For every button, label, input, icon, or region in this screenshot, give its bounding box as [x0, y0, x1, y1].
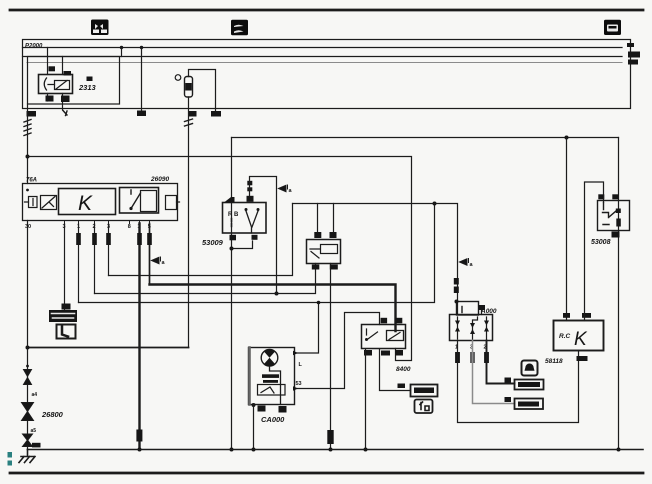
svg-text:8400: 8400: [396, 366, 411, 373]
CC top pin blobs: [381, 318, 388, 324]
svg-text:26800: 26800: [41, 410, 64, 419]
wire x27 inner box to relay box: [27, 104, 29, 184]
CA000 bottom pin blobs: [252, 403, 256, 407]
svg-text:K: K: [574, 329, 588, 350]
connector blob below box left: [27, 111, 37, 117]
53009 top pin blob x249: [247, 196, 254, 202]
CC bottom pin marks: [364, 350, 372, 356]
inline connector pair 2 x27: [22, 403, 34, 421]
CA000 inner switch rect: [258, 385, 286, 396]
pin mark 9: [505, 397, 512, 402]
pin blob above ignition right: [64, 71, 72, 76]
node dot x365 ground: [364, 448, 368, 452]
wire bus y156: [28, 157, 412, 361]
CA000 fan circle: [261, 350, 278, 367]
node dot x253 ground: [252, 448, 256, 452]
svg-text:53008: 53008: [591, 239, 611, 246]
svg-text:K: K: [78, 192, 93, 215]
svg-text:53009: 53009: [202, 238, 224, 247]
power rail 3: [23, 56, 623, 58]
wire x27 relay to ground: [27, 221, 29, 450]
wire x231 long vertical: [231, 138, 233, 450]
CC inner rect: [387, 331, 404, 341]
fuse dark element: [185, 83, 192, 91]
relay K body: [59, 189, 116, 215]
connector box 2000: [411, 385, 438, 397]
wire CA000 ground: [253, 405, 255, 450]
inline connector pair 3 x27: [23, 434, 33, 447]
pedal switch upper block: [49, 310, 77, 322]
relay pin numbers: [25, 224, 151, 230]
svg-text:R.C: R.C: [559, 333, 571, 340]
lamp unit CA000 box: [249, 348, 295, 405]
page arrow marker a1: [279, 185, 288, 192]
svg-text:R B: R B: [228, 212, 239, 218]
ignition switch 2313 body: [39, 75, 73, 94]
53008 bottom pin mark: [612, 232, 620, 238]
ignition switch contact diagonal: [48, 81, 67, 90]
relay left connector: [29, 197, 38, 208]
node dot y137 x566: [565, 136, 569, 140]
svg-text:8: 8: [128, 224, 131, 230]
wire branch pin1 53009: [232, 241, 253, 249]
svg-text:76A: 76A: [26, 178, 37, 184]
power rail 4 (grey): [27, 62, 622, 64]
svg-text:53: 53: [296, 381, 302, 387]
svg-text:P2000: P2000: [25, 44, 43, 50]
svg-text:a5: a5: [31, 428, 37, 434]
svg-text:58118: 58118: [545, 358, 563, 365]
53009 bottom pin blob 1: [252, 235, 258, 240]
svg-text:26090: 26090: [150, 176, 169, 183]
wire ignition pin to rail3: [62, 57, 64, 75]
relay box 26090 outline: [23, 184, 178, 221]
wire A000 pin2 to connector: [487, 341, 515, 384]
power rail 2: [23, 47, 623, 49]
node dot x318 y302: [317, 301, 321, 305]
node dot x27 y156: [26, 155, 30, 159]
wire bus y284 thick: [150, 285, 396, 332]
icon air-distribution top-middle: [231, 20, 248, 36]
pin mark 4B: [505, 378, 512, 383]
53009 top pin blob x231: [224, 197, 235, 203]
icon display top-right: [604, 20, 621, 35]
wire CC mid pin to connector: [380, 349, 411, 391]
connector hatch x188: [185, 119, 193, 126]
tick arrow below x62: [63, 111, 67, 116]
inline fuse x330: [327, 430, 333, 444]
ground rail: [28, 449, 644, 451]
pin blob below ignition left: [46, 96, 54, 102]
ignition bottom pin left stub: [47, 94, 49, 102]
switch unit 53009 box: [223, 203, 267, 234]
connector blob x141: [137, 111, 146, 117]
page arrow marker a3: [460, 259, 469, 266]
connector box 38400: [515, 399, 544, 410]
fuse pilot circle: [175, 75, 181, 81]
wire x141 down to connector: [141, 48, 143, 113]
wire relay pin x149: [149, 224, 151, 285]
svg-text:CA000: CA000: [261, 415, 285, 424]
53009 internal dashes: [231, 219, 233, 227]
wire bus y302: [79, 204, 435, 303]
connector blob x215: [211, 111, 221, 117]
resistor unit CC box: [362, 325, 406, 349]
relay coil 26090: [41, 196, 57, 210]
53009 wire code marks x249: [247, 181, 252, 186]
relay switch box: [120, 188, 159, 214]
frame bottom border: [10, 472, 643, 475]
fuse F body: [185, 77, 193, 98]
A000 small top box: [457, 302, 479, 316]
node dot x231 ground: [230, 448, 234, 452]
relay 1503 box: [307, 240, 341, 264]
relay right connector: [166, 196, 177, 210]
53008 top pin marks: [598, 194, 604, 199]
wire relay pin x78: [78, 224, 80, 303]
wire code blobs under relay: [76, 233, 152, 245]
pin blob below ignition right: [61, 96, 70, 103]
connector box 47000: [515, 380, 544, 390]
ignition switch arc: [44, 78, 46, 90]
pedal switch pin blob: [62, 304, 71, 310]
svg-text:a4: a4: [32, 392, 38, 398]
A000 internal contacts: [458, 317, 487, 339]
node dot x27 y347: [26, 346, 30, 350]
53009 contact Y: [246, 211, 258, 233]
wire fuse top bracket: [189, 70, 216, 109]
switch unit A000 box: [450, 315, 493, 341]
wire ignition pin to rail2: [47, 48, 49, 75]
wire bus y275: [109, 204, 293, 276]
node dot y203 x434: [433, 202, 437, 206]
node dot x231 y248: [230, 247, 234, 251]
CA000 capacitor bars: [262, 374, 279, 378]
node dot rail x141: [140, 46, 143, 49]
A000 stub pin 5: [481, 310, 483, 315]
connector blob x188: [189, 111, 197, 117]
inline fuse x139: [136, 430, 142, 442]
wire relay pin x108: [108, 224, 110, 276]
1503 internals: [310, 249, 320, 258]
wire x566 to K unit: [566, 138, 568, 321]
CA000 internal wires: [270, 366, 281, 405]
wire lamp 53 to CC unit top pin: [295, 313, 380, 389]
page arrow marker a2: [152, 257, 161, 264]
icon fan-switch top-left: [91, 20, 109, 36]
wire 53008 bracket to K unit: [585, 182, 604, 321]
wire code blobs under A000: [455, 352, 460, 363]
wire relay pin x94: [94, 224, 96, 294]
CA000 left edge thick: [248, 348, 251, 405]
wire bus y203: [293, 204, 458, 315]
rail end marks right: [627, 43, 640, 65]
wire bus y137: [232, 137, 619, 139]
svg-text:2313: 2313: [78, 83, 97, 92]
1503 wires to bus y203: [317, 204, 319, 233]
wire thick y347 to lamp unit: [28, 347, 189, 349]
unit box P2000 outline: [23, 40, 631, 109]
frame top border: [10, 9, 643, 12]
node dot rail x121: [120, 46, 123, 49]
A000 bottom pin numbers: [455, 345, 487, 351]
wire CC left pin to ground: [365, 349, 367, 450]
wire 53009 bracket to x276: [250, 177, 277, 294]
relay 53008 box: [598, 201, 630, 231]
1503 inner rect: [321, 245, 338, 254]
wire relay pin x64 to pedal switch: [64, 224, 66, 311]
53008 internals: [603, 203, 617, 225]
label glyph 2313: [87, 77, 93, 82]
K unit bottom pin mark: [577, 356, 588, 361]
wire x618 through relay 53008 to ground: [618, 138, 620, 450]
wire bus y293: [95, 264, 316, 294]
ignition switch inner rect: [55, 81, 70, 90]
wire A000 pin3 grey to connector: [473, 341, 515, 404]
teal marks: [8, 452, 13, 458]
CC left contact: [367, 329, 378, 340]
pedal switch lower block: [57, 325, 76, 339]
node dot x139 ground: [138, 448, 142, 452]
wire x121 rail to inner box: [121, 48, 123, 57]
53009 bottom pin blob 9: [230, 235, 237, 241]
1503 top pin blobs: [314, 232, 321, 238]
relay switch contact: [131, 190, 141, 209]
node dot x618 ground: [617, 448, 621, 452]
ground symbol: [19, 450, 35, 463]
wire 1503 to ground with fuse: [330, 264, 332, 450]
wire relay pin x139 thick to ground: [138, 224, 140, 450]
pin blob above ignition left: [49, 66, 56, 71]
node dot x330 ground: [329, 448, 333, 452]
tick below x215: [215, 109, 217, 113]
wire A000 pin1 to K unit: [458, 341, 579, 423]
connector icon 14: [415, 400, 433, 414]
K unit top pin marks: [563, 313, 570, 318]
inline connector pair 1 x27: [24, 370, 32, 385]
wire code blobs x457: [454, 278, 459, 285]
K unit RC box: [554, 321, 604, 351]
chime icon: [522, 361, 538, 376]
ignition bottom pin right wire: [62, 94, 64, 111]
node dot x276 y293: [275, 292, 279, 296]
wire fuse bottom long vertical to y348: [188, 97, 190, 348]
pin mark wire390: [398, 384, 406, 389]
inner box around ignition switch: [28, 57, 120, 105]
53009 contact pin dots: [245, 208, 248, 211]
relay switch inner rect: [141, 191, 157, 212]
1503 bottom pin marks: [312, 265, 320, 270]
connector hatch x27: [24, 120, 31, 136]
relay pin ticks: [65, 221, 150, 224]
wire lamp L to bus y302: [295, 303, 319, 354]
